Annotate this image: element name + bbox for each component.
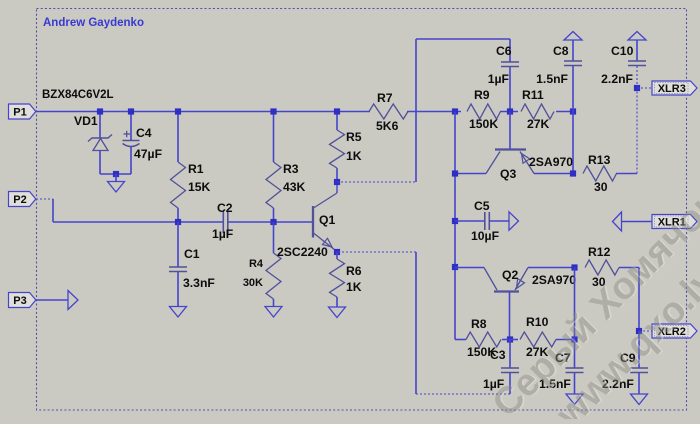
port XLR3 [652,81,697,95]
wire [574,373,576,394]
ground [170,307,187,318]
wire [336,297,338,307]
label R7 [377,91,393,105]
svg-text:R4: R4 [249,258,264,270]
node C5 off-page arrow [509,212,519,230]
transistor Q2 bar [494,290,519,292]
wire [572,40,574,61]
transistor Q3 collector [455,152,500,174]
wire [337,251,416,253]
value 27K [527,117,550,131]
wire [416,393,510,395]
ground [566,394,583,405]
capacitor C3 [501,368,519,373]
svg-text:R9: R9 [474,88,490,102]
wire [637,87,652,89]
label R1 [188,162,204,176]
wire [36,299,68,301]
svg-text:R12: R12 [588,245,611,259]
wire [100,173,131,175]
wire [509,39,511,62]
label Q2 [502,268,518,282]
wire [636,88,638,174]
label Q3 [500,167,516,181]
label R5 [346,130,362,144]
wire [639,330,652,332]
label R3 [283,162,299,176]
value 5K6 [376,119,399,133]
node junction [634,85,640,91]
svg-text:Q3: Q3 [500,167,516,181]
wire [130,147,132,175]
node junction [270,219,276,225]
resistor R13 [583,166,617,181]
svg-text:1K: 1K [346,280,362,294]
svg-text:R8: R8 [471,317,487,331]
wire [273,299,275,307]
svg-text:30: 30 [594,180,608,194]
label C1 [184,247,200,261]
wire [556,111,573,113]
node junction [452,170,458,176]
svg-text:R7: R7 [377,91,393,105]
transistor Q3 emitter [520,152,573,174]
node junction [175,108,181,114]
svg-text:150K: 150K [469,117,498,131]
transistor Q1 emitter [314,233,338,252]
label C7 [555,351,571,365]
wire [638,268,640,332]
value 1µF (C3) [483,377,504,391]
wire [489,220,509,222]
node junction [334,179,340,185]
label R10 [526,315,549,329]
svg-text:2SA970: 2SA970 [529,155,573,169]
svg-text:1µF: 1µF [212,227,233,241]
svg-text:30K: 30K [243,277,263,289]
wire [638,373,640,394]
wire [336,112,338,131]
svg-text:C5: C5 [474,199,490,213]
svg-text:R11: R11 [522,88,544,102]
svg-text:3.3nF: 3.3nF [183,276,215,290]
node junction [452,108,458,114]
wire [177,222,179,267]
port XLR1 [652,215,697,229]
wire [509,67,511,112]
wire [616,173,637,175]
node junction [571,336,577,342]
label R12 [588,245,611,259]
label C9 [620,351,636,365]
label C6 [496,44,512,58]
wire [115,174,117,182]
wire [99,112,101,138]
label BZX84C6V2L [42,89,114,101]
capacitor C10 [628,61,646,66]
label Q1 [319,213,335,227]
wire [455,339,466,341]
wire [619,267,639,269]
wire [407,111,461,113]
svg-text:R6: R6 [346,264,362,278]
wire [273,222,275,253]
svg-text:C6: C6 [496,44,512,58]
svg-text:P1: P1 [13,107,26,119]
port XLR2 [652,324,697,338]
transistor Q3 base [509,112,511,149]
label C8 [553,44,569,58]
svg-text:P2: P2 [13,194,26,206]
svg-text:1.5nF: 1.5nF [536,72,568,86]
resistor R4 [266,253,281,299]
transistor Q2 emitter [515,268,575,291]
svg-text:43K: 43K [283,180,306,194]
svg-text:Andrew Gaydenko: Andrew Gaydenko [43,17,144,29]
svg-text:XLR3: XLR3 [658,83,686,95]
wire [509,373,511,394]
wire [636,66,638,88]
value 15K [188,180,211,194]
wire [130,112,132,141]
svg-text:1K: 1K [346,149,362,163]
label C4 [136,126,152,140]
svg-text:Q2: Q2 [502,268,518,282]
ground [108,182,125,193]
capacitor C9 [630,368,648,373]
svg-text:1µF: 1µF [488,72,509,86]
node junction [175,219,181,225]
node junction [636,328,642,334]
node junction [270,108,276,114]
wire [622,221,653,223]
value 150K [469,117,498,131]
svg-text:5K6: 5K6 [376,119,399,133]
node junction [452,264,458,270]
label R11 [522,88,544,102]
wire [556,339,575,341]
svg-text:15K: 15K [188,180,211,194]
wire [53,221,223,223]
resistor R1 [171,162,186,208]
value 1K [346,149,362,163]
watermark text [485,182,700,424]
svg-text:C2: C2 [217,201,233,215]
zener diode VD1 [88,135,112,151]
wire [177,112,179,163]
value 2.2nF [601,72,633,86]
label C5 [474,199,490,213]
capacitor C2 [223,211,228,233]
wire [572,112,574,174]
wire [574,268,576,340]
node junction [570,108,576,114]
transistor Q1 bar [312,206,314,238]
label R4 [249,258,264,270]
svg-text:2.2nF: 2.2nF [601,72,633,86]
wire [572,66,574,112]
value 47µF [134,147,162,161]
svg-text:VD1: VD1 [74,114,98,128]
wire [574,340,576,369]
capacitor C5 [485,212,490,230]
svg-text:R5: R5 [346,130,362,144]
value 1.5nF (C7) [539,377,571,391]
value 2SA970 (Q2) [532,273,576,287]
transistor Q1 collector [314,182,338,208]
wire [454,112,456,340]
wire [36,111,370,113]
resistor R12 [585,260,619,275]
node junction [334,108,340,114]
node junction [452,218,458,224]
resistor R3 [266,162,281,208]
port P3 [9,293,36,308]
node P3 off-page arrow [68,291,78,310]
wire [636,40,638,61]
value 2.2nF (C9) [602,377,634,391]
label C10 [611,44,634,58]
wire [177,208,179,222]
value 1.5nF [536,72,568,86]
resistor R5 [330,130,345,168]
resistor R8 [466,332,501,347]
label R6 [346,264,362,278]
svg-text:BZX84C6V2L: BZX84C6V2L [42,89,114,101]
resistor R9 [467,104,501,119]
wire [415,39,417,182]
transistor Q2 collector [455,268,497,291]
wire [337,181,416,183]
ground [631,394,648,405]
port P1 [9,104,36,119]
wire [455,220,484,222]
value 27K [526,345,549,359]
title Andrew Gaydenko [43,17,144,29]
label R13 [588,153,611,167]
wire [177,272,179,307]
capacitor C8 [564,61,582,66]
svg-text:2SA970: 2SA970 [532,273,576,287]
value 2SC2240 [277,245,328,259]
label VD1 [74,114,98,128]
node junction [571,264,577,270]
power arrow [628,32,646,41]
svg-text:C10: C10 [611,44,634,58]
wire [228,221,313,223]
resistor R10 [520,332,556,347]
node junction [507,108,513,114]
wire [336,168,338,182]
resistor R6 [330,259,345,297]
wire [500,111,518,113]
node junction [128,108,134,114]
value 150K [467,345,496,359]
label C3 [490,348,506,362]
wire [336,252,338,259]
capacitor C6 [501,62,519,67]
label C2 [217,201,233,215]
label R8 [471,317,487,331]
svg-text:Q1: Q1 [319,213,335,227]
wire [509,340,511,369]
node junction [570,170,576,176]
node junction [113,171,119,177]
svg-text:C3: C3 [490,348,506,362]
svg-text:R1: R1 [188,162,204,176]
wire [502,339,518,341]
svg-text:R13: R13 [588,153,611,167]
value 30 (R12) [592,275,606,289]
wire [273,112,275,163]
power arrow [564,32,582,41]
node junction [334,249,340,255]
svg-text:R10: R10 [526,315,549,329]
node junction [97,108,103,114]
capacitor C1 [169,267,187,272]
resistor R11 [521,104,554,119]
resistor R7 [369,104,408,119]
svg-text:P3: P3 [13,295,26,307]
value 10µF [471,229,499,243]
value 2SA970 (Q3) [529,155,573,169]
value 1µF [212,227,233,241]
transistor Q2 base [509,292,511,340]
capacitor C7 [566,368,584,373]
svg-text:27K: 27K [527,117,550,131]
wire [416,38,510,40]
svg-text:R3: R3 [283,162,299,176]
svg-text:C1: C1 [184,247,200,261]
capacitor C4 [123,131,140,147]
node XLR1 off-page arrow [613,212,622,231]
value 3.3nF [183,276,215,290]
svg-text:C4: C4 [136,126,152,140]
svg-text:47µF: 47µF [134,147,162,161]
wire [36,199,53,222]
ground [329,307,346,318]
value 1K [346,280,362,294]
value 1µF [488,72,509,86]
wire [273,208,275,222]
wire [638,331,640,368]
value 30K [243,277,263,289]
label R9 [474,88,490,102]
wire [99,151,101,175]
port P2 [9,192,36,207]
svg-text:10µF: 10µF [471,229,499,243]
node junction [507,336,513,342]
value 43K [283,180,306,194]
value 30 (R13) [594,180,608,194]
transistor Q3 bar [495,148,526,150]
ground [265,307,282,318]
svg-text:2SC2240: 2SC2240 [277,245,328,259]
svg-text:C8: C8 [553,44,569,58]
wire [415,252,417,394]
